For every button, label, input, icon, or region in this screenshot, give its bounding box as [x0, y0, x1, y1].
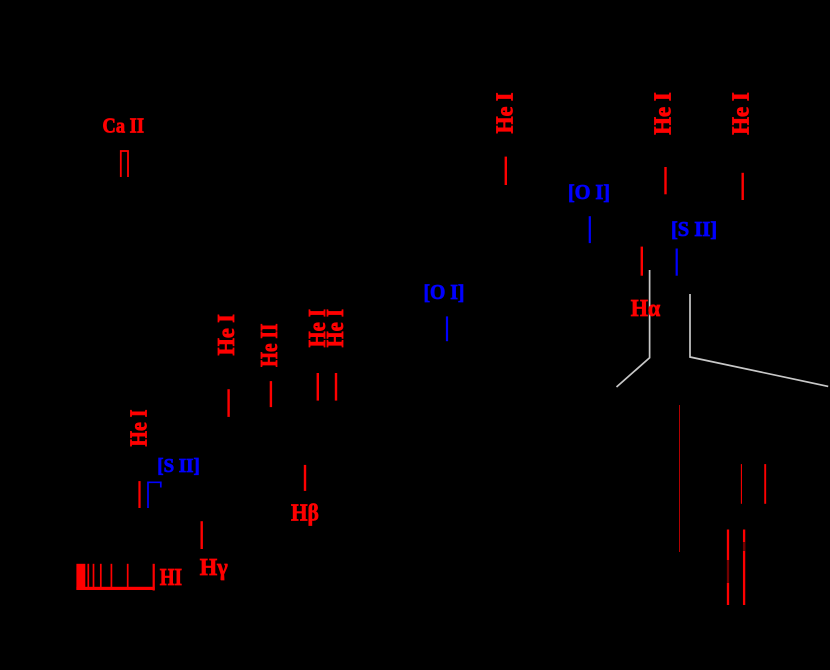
He I tick 3	[742, 173, 744, 200]
H-gamma tick	[200, 521, 202, 549]
H I comb ticks	[88, 564, 127, 587]
He I tick 7	[138, 481, 140, 508]
svg-text:He I: He I	[323, 309, 349, 347]
svg-text:Hα: Hα	[631, 295, 661, 322]
svg-text:He I: He I	[651, 92, 677, 135]
He I tick 1	[505, 157, 507, 185]
right inset connector	[690, 294, 828, 386]
svg-text:He I: He I	[214, 314, 240, 356]
dark overlap smudge left	[727, 560, 730, 583]
O I forbidden line 2	[446, 316, 448, 341]
inset upper doublet right	[764, 464, 766, 504]
S II bracket marker 2	[148, 482, 161, 508]
S II forbidden tick 1	[676, 249, 678, 276]
H-beta tick	[304, 465, 306, 491]
svg-text:He I: He I	[127, 410, 153, 447]
svg-text:[O I]: [O I]	[568, 180, 610, 204]
He I tick 5	[317, 373, 319, 401]
H I comb right tick	[153, 564, 155, 591]
H I comb base bar	[76, 587, 154, 590]
svg-text:[S II]: [S II]	[157, 455, 200, 477]
inset lower doublet left	[727, 530, 729, 606]
svg-text:He I: He I	[729, 92, 755, 135]
svg-text:He I: He I	[493, 93, 519, 134]
inset lower doublet right	[743, 530, 745, 606]
svg-text:Hγ: Hγ	[200, 555, 228, 581]
svg-text:Hβ: Hβ	[291, 501, 319, 527]
svg-text:[O I]: [O I]	[424, 280, 465, 304]
svg-text:He II: He II	[257, 324, 283, 368]
svg-text:Ca II: Ca II	[103, 114, 145, 138]
He I tick 2	[664, 167, 666, 194]
Ca II doublet marker	[121, 151, 128, 177]
H I Balmer series comb: unresolved block	[76, 564, 85, 590]
dark overlap smudge right	[742, 542, 745, 551]
He II tick	[270, 381, 272, 407]
O I forbidden line 1	[589, 216, 591, 243]
He I tick 4	[227, 389, 229, 417]
He I tick 6	[335, 373, 337, 401]
svg-text:HI: HI	[160, 565, 182, 591]
inset thin H-alpha marker	[678, 405, 680, 552]
red tick near S II	[641, 247, 643, 276]
svg-text:[S II]: [S II]	[671, 217, 717, 241]
inset upper doublet left	[740, 464, 742, 504]
left inset connector	[617, 270, 650, 387]
